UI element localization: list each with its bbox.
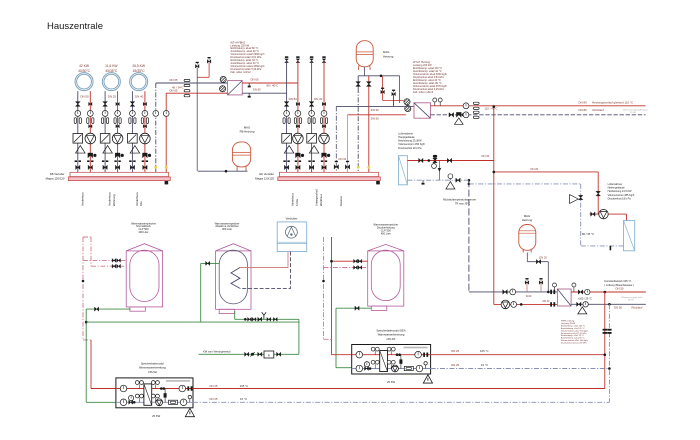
svg-text:Vorderhaus: Vorderhaus (108, 192, 112, 206)
valve motor supply (143, 102, 145, 105)
three-way valve (115, 153, 117, 158)
check valve KW (251, 353, 254, 356)
svg-text:Hauszentrale: Hauszentrale (47, 21, 103, 32)
svg-text:Druckverlust a2a1 2,19 kPa: Druckverlust a2a1 2,19 kPa (561, 342, 587, 345)
vent stub cold out (189, 399, 191, 403)
thermometer hot out (415, 351, 422, 358)
flex connector return (102, 118, 104, 124)
wire CPLSH hot out DN25 (193, 388, 605, 390)
flow meter (169, 400, 178, 404)
strainer Konstant return (578, 307, 587, 314)
svg-text:DN 50: DN 50 (616, 287, 624, 291)
module box CPLSH (116, 378, 193, 408)
thermometer hot in (356, 351, 363, 358)
cap HK1 supply (296, 56, 299, 58)
drain tick heater return (422, 180, 424, 183)
thermometer return (102, 111, 108, 117)
wire heater supply (407, 160, 493, 162)
drain tick supply (248, 83, 250, 86)
svg-text:Kita: Kita (139, 201, 143, 206)
wire compressor supply to coil (240, 252, 288, 268)
wire module cold row (116, 401, 193, 403)
flex on supply (184, 90, 190, 92)
manifold drain (165, 181, 169, 184)
wire circuit return (104, 91, 106, 172)
drain tick (610, 246, 612, 250)
wire supply drop x494 (493, 107, 495, 305)
svg-text:DN 32: DN 32 (339, 157, 347, 161)
wire red feed to HX2 top (382, 76, 384, 101)
svg-text:Warmwasserbereitung: Warmwasserbereitung (139, 366, 166, 370)
wire coil return to compressor (240, 252, 291, 289)
wire heater return (407, 179, 469, 181)
wire mixing supply row (494, 303, 558, 305)
wire circuit return (77, 91, 79, 172)
union supply (321, 160, 323, 162)
svg-text:11,6 KW: 11,6 KW (105, 64, 118, 68)
svg-text:DN 50: DN 50 (80, 94, 89, 98)
valve motor supply (322, 102, 324, 105)
mixing valve (73, 134, 83, 144)
wire CPLDX cold out DN25 (431, 368, 610, 370)
svg-text:400 Liter: 400 Liter (138, 230, 148, 234)
thermometer riser supply (163, 111, 169, 117)
wire tank2 upper green port (201, 262, 220, 264)
valve small supply (322, 125, 324, 128)
expansion vessel MAG FB (232, 142, 250, 167)
wire FB return riser (155, 83, 157, 172)
pump (112, 133, 123, 144)
svg-text:Speicherlademodul DEA: Speicherlademodul DEA (376, 328, 405, 332)
thermometer cold in (120, 399, 127, 406)
svg-text:26,5 KW: 26,5 KW (132, 64, 146, 68)
svg-text:450 Liter: 450 Liter (381, 231, 391, 235)
valve small supply (89, 125, 91, 128)
wire return drop x469 (468, 180, 470, 292)
strainer (309, 146, 319, 154)
valve KW group 2 (252, 317, 254, 321)
thermometer mid (129, 395, 134, 400)
valve motor supply (296, 102, 298, 105)
svg-text:45/35°C: 45/35°C (133, 69, 146, 73)
svg-text:CPLSH: CPLSH (148, 370, 157, 374)
svg-text:25 KW: 25 KW (387, 380, 396, 384)
valve tank2 upper (206, 261, 208, 265)
wire supply DN50 main (348, 114, 407, 116)
svg-text:Reserve: Reserve (339, 195, 343, 206)
svg-text:110 / 42°C: 110 / 42°C (485, 107, 498, 111)
valve cold (365, 367, 367, 371)
fill group stub 2 (540, 283, 542, 292)
valve KW 1 (245, 352, 247, 356)
wire circulation corner to module (83, 339, 91, 341)
sensor dot supply (165, 166, 168, 169)
valve Konstant supply (578, 290, 580, 294)
wire CPLSH hot in (91, 388, 116, 390)
wire WW riser pink x324 (323, 237, 325, 339)
thermometer under supply (433, 161, 435, 164)
junction hot (396, 353, 399, 356)
mixing valve (100, 134, 110, 144)
valve shutoff return (309, 102, 314, 104)
thermometer Konstant supply (585, 289, 590, 294)
svg-text:Verdichter: Verdichter (286, 217, 298, 221)
svg-text:KW vom Versorgernetz): KW vom Versorgernetz) (203, 349, 231, 353)
gauge pair top right (151, 381, 155, 385)
valve bottom supply (322, 165, 324, 169)
svg-text:DN 25: DN 25 (451, 363, 459, 367)
wire circuit return (311, 62, 313, 173)
valve small supply (143, 125, 145, 128)
svg-text:CPLDX: CPLDX (387, 337, 396, 341)
wire FB supply riser (165, 93, 167, 172)
pressure reducer (258, 317, 260, 321)
thermometer supply (142, 111, 148, 117)
strainer heater return (446, 182, 455, 189)
wire module hot row (352, 354, 431, 356)
fill stub on return main (393, 94, 395, 106)
wire HX1 port top (225, 82, 227, 84)
flex connector supply (141, 118, 143, 124)
svg-text:Heizungsvorlauf gleitend 110 °: Heizungsvorlauf gleitend 110 °C (592, 100, 633, 104)
valve main riser supply (366, 82, 371, 84)
wire Konstant return out (571, 303, 646, 305)
svg-text:FB-Heizung: FB-Heizung (240, 130, 255, 134)
wire green riser x201 (200, 263, 202, 322)
valve main riser return (356, 82, 361, 84)
junction cold (369, 367, 372, 370)
bypass with check valve (400, 355, 402, 369)
vent stub cold out (425, 365, 427, 369)
junction mixing supply (520, 303, 523, 306)
junction drop return (608, 303, 611, 306)
valve before pump (591, 212, 593, 216)
valves tank3 upper (354, 259, 356, 263)
junction hot (160, 387, 163, 390)
valve mixing return (503, 290, 505, 295)
labels below HK manifold (291, 192, 299, 206)
pump (140, 133, 151, 144)
svg-text:DN 65: DN 65 (170, 78, 178, 82)
wire tank3 lower port (324, 267, 368, 269)
thermometer supply (87, 111, 93, 117)
water meter Fi (264, 351, 274, 358)
wire secondary supply DN65 (166, 92, 227, 94)
valves tank1 upper (112, 259, 114, 263)
air heater Hauptgebaeude box (399, 156, 408, 185)
wire module hot row (116, 388, 193, 390)
valve motor supply (89, 102, 91, 105)
wire green horizontal y322 (86, 321, 299, 323)
wire return DN50 main (336, 105, 404, 107)
svg-text:DN 80: DN 80 (579, 100, 588, 104)
spare takeoff 2 (347, 115, 349, 173)
svg-text:80 / 35 °C: 80 / 35 °C (582, 232, 594, 236)
valve tank3 green (355, 306, 357, 310)
heat exchanger WT Lueftung (557, 289, 571, 306)
valve motor supply (116, 102, 118, 105)
wire district return DN80 (430, 114, 645, 116)
flex on return (184, 79, 190, 81)
svg-text:Heizung: Heizung (383, 54, 394, 58)
svg-text:DN 25: DN 25 (108, 94, 117, 98)
valve small supply (116, 125, 118, 128)
thermometer cold out (416, 365, 423, 372)
svg-text:DN 65: DN 65 (251, 77, 259, 81)
svg-text:15 °C: 15 °C (240, 397, 247, 401)
vent riser to MAG-FB (196, 67, 198, 83)
thermometer supply (295, 111, 301, 117)
valves tank1 lower (112, 264, 114, 268)
bypass with check valve (164, 389, 166, 403)
wire circuit return (131, 91, 133, 172)
bypass check (438, 161, 440, 181)
wire MAG2 connection (526, 253, 528, 262)
wire green riser x298 (298, 319, 300, 354)
manifold HK Verteiler bar bottom (278, 177, 381, 181)
valve bottom return (284, 165, 286, 169)
svg-text:Untergeschoß: Untergeschoß (315, 189, 319, 206)
thermometer hot out (179, 385, 186, 392)
thermometer mixing return (510, 289, 516, 295)
valve district return (449, 113, 451, 118)
svg-text:43 kW: 43 kW (628, 300, 634, 302)
strainer (284, 146, 294, 154)
svg-text:+105 / 29 °C: +105 / 29 °C (578, 297, 592, 300)
svg-text:Druckverlust 20 k Pa: Druckverlust 20 k Pa (398, 147, 422, 150)
valve KW group 4 (273, 317, 275, 321)
svg-text:Rücklauftemperaturbegrenzer: Rücklauftemperaturbegrenzer (443, 199, 476, 202)
compressor Verdichter box (277, 222, 307, 252)
svg-text:DN 40: DN 40 (135, 94, 144, 98)
valve shutoff return (130, 102, 135, 104)
ball valve HX2 top (404, 99, 410, 105)
wire CPLDX hot out DN25 (431, 354, 605, 356)
pump module (392, 365, 399, 372)
wire tank2 bottom drop (234, 311, 236, 319)
svg-text:Volumenstrom 385 Kg/h: Volumenstrom 385 Kg/h (608, 194, 635, 197)
gauge pair mid left (135, 394, 139, 398)
pump (293, 133, 304, 144)
junction green (85, 321, 88, 324)
svg-text:Heizung: Heizung (522, 218, 533, 222)
union supply (142, 160, 144, 162)
three-way valve district return (456, 112, 458, 117)
wire drop blue x609 (608, 304, 610, 402)
junction supply (428, 159, 431, 162)
union return (75, 160, 77, 162)
valve bottom return (130, 165, 132, 169)
label Vorderhaus Werkstatt (81, 192, 85, 206)
pump (85, 133, 96, 144)
plate heat exchanger (144, 384, 152, 405)
wire HX1 port bottom (225, 92, 227, 94)
wire circuit return (286, 62, 288, 173)
tank 1 Warmwasserspeicher Normaldruck (126, 244, 162, 251)
valve bottom return (309, 165, 311, 169)
svg-text:Magra 120/125: Magra 120/125 (255, 176, 274, 180)
svg-text:Vorderhaus: Vorderhaus (81, 192, 85, 206)
svg-text:105 °C: 105 °C (240, 384, 249, 388)
strainer Neben return (570, 195, 579, 204)
svg-text:DN 50: DN 50 (371, 116, 379, 120)
wire primary return 40C (242, 92, 286, 94)
wire tank3 green drop (335, 308, 337, 368)
wire MAG connection line (363, 67, 365, 76)
svg-text:Druckverlust 18 k Pa: Druckverlust 18 k Pa (608, 197, 632, 200)
svg-text:Rücklauf: Rücklauf (632, 305, 643, 309)
valve shutoff return (75, 102, 80, 104)
junction cold (133, 401, 136, 404)
union on red drop (603, 329, 607, 331)
union hot out (423, 353, 425, 357)
gauges on supply (434, 100, 436, 106)
junction WW pink (322, 280, 325, 283)
wire Neben return riser (580, 184, 582, 246)
consumer circle FB1 (75, 73, 93, 91)
flex connector supply (114, 118, 116, 124)
gauge pair mid right (151, 394, 155, 398)
junction MAG (380, 75, 383, 78)
svg-text:80 / 40°C: 80 / 40°C (267, 83, 279, 87)
three-way valve (143, 153, 145, 158)
svg-text:Konstantbetrieb 105 °C: Konstantbetrieb 105 °C (604, 279, 631, 283)
svg-text:300 Liter: 300 Liter (222, 227, 232, 231)
thermometer hot in (120, 385, 127, 392)
svg-text:15 °C: 15 °C (481, 363, 488, 367)
svg-text:Lufterwärmer: Lufterwärmer (398, 132, 413, 135)
pump Nebengebaeude (599, 209, 608, 218)
wire into heater box (626, 214, 628, 221)
wire district supply DN80 (430, 105, 645, 107)
wire tank1 bottom green (86, 308, 130, 310)
pump module (156, 399, 163, 406)
union supply (295, 160, 297, 162)
valve KW 2 (258, 352, 260, 356)
wire circuit supply (323, 62, 325, 173)
svg-text:DN 50: DN 50 (614, 305, 622, 309)
union return (129, 160, 131, 162)
expansion vessel MAG 2 (519, 225, 536, 251)
svg-text:45/35°C: 45/35°C (105, 69, 118, 73)
valve tank1 green (95, 307, 97, 311)
junction drop supply (604, 291, 607, 294)
sensor dot return (154, 166, 157, 169)
union supply (114, 160, 116, 162)
svg-text:Heizleistung 25,3KW: Heizleistung 25,3KW (398, 140, 422, 143)
svg-text:105 °C: 105 °C (480, 349, 489, 353)
svg-text:4.Kita: 4.Kita (295, 199, 299, 206)
valve bottom supply (296, 165, 298, 169)
flex return (473, 111, 479, 113)
svg-text:DN 20: DN 20 (539, 256, 547, 260)
wire CPLSH cold out DN25 (193, 401, 609, 403)
junction circulation (82, 280, 85, 283)
svg-text:DN 50: DN 50 (371, 108, 379, 112)
coil in tank 2 (231, 268, 240, 289)
consumer circle FB3 (130, 73, 148, 91)
thermometer return (284, 111, 290, 117)
wire MAG drop to HX2 (399, 76, 401, 103)
wire drop red x605 (604, 292, 606, 389)
strainer (76, 146, 86, 154)
thermometer return (463, 112, 469, 118)
flow meter (404, 366, 413, 370)
valve bottom supply (88, 165, 90, 169)
valve KW group 1 (248, 317, 250, 321)
consumer circle FB2 (102, 73, 120, 91)
wire DN20 supply to Nebengebaeude (494, 171, 598, 173)
thermometer supply (115, 111, 121, 117)
svg-text:Rücklauf: Rücklauf (593, 108, 604, 112)
pump mixing (501, 300, 510, 309)
wire circuit supply (89, 91, 91, 172)
svg-text:DN 65: DN 65 (170, 88, 178, 92)
wire tank3 bottom green (336, 307, 371, 309)
strainer district return (455, 118, 464, 124)
union return (308, 160, 310, 162)
ball valve HX1 supply (220, 86, 226, 92)
manifold FB Verteiler bar bottom (68, 177, 170, 181)
manifold HK drain (376, 181, 380, 184)
wire MAG2 drop (547, 262, 549, 292)
mixing valve (307, 134, 317, 144)
thermometer Konstant return (583, 302, 588, 307)
svg-text:Hauptgebäude: Hauptgebäude (398, 136, 415, 139)
flex supply (473, 102, 479, 104)
thermometer supply (321, 111, 327, 117)
gauge HX3 left (554, 285, 556, 292)
valve bottom return (76, 165, 78, 169)
svg-text:Vorderhaus: Vorderhaus (135, 192, 139, 206)
wire circulation top link (83, 236, 91, 238)
svg-text:DN 20: DN 20 (531, 167, 539, 171)
flex connector return (74, 118, 76, 124)
wire supply drop to CPLSH (90, 340, 92, 389)
heat exchanger WT Heizung (414, 103, 430, 118)
svg-text:DN 40: DN 40 (543, 300, 550, 303)
cap HK2 supply (322, 56, 325, 58)
drain tick return (248, 93, 250, 96)
svg-text:Wohnung: Wohnung (112, 194, 116, 206)
air heater Nebengebaeude box (624, 221, 635, 251)
safety valve on feed (381, 90, 383, 94)
heat exchanger WT FB (228, 81, 243, 95)
svg-text:42 KW: 42 KW (79, 64, 90, 68)
valve cold (129, 400, 131, 404)
wire HX2 port mid (404, 105, 414, 107)
wire pink join red (324, 338, 332, 340)
svg-text:DN 65: DN 65 (253, 87, 261, 91)
wire primary supply 80C (242, 82, 298, 84)
valve MAG2 (536, 260, 538, 264)
svg-text:FB Verteiler: FB Verteiler (50, 172, 65, 176)
cap HK1 return (285, 56, 288, 58)
wire circuit supply (144, 91, 146, 172)
ball valve HX2 mid (405, 106, 411, 112)
module box CPLDX (352, 345, 431, 375)
svg-text:Hinterhaus: Hinterhaus (291, 192, 295, 206)
plate heat exchanger (380, 351, 388, 372)
flex connector supply (87, 118, 89, 124)
flex connector supply (294, 118, 296, 124)
wire Neben supply drop (597, 172, 599, 214)
fill group stub 1 (526, 283, 528, 292)
wire circuit supply (297, 62, 299, 173)
module type note (166, 380, 190, 382)
wire red to CPLDX (332, 354, 352, 356)
three-way valve (296, 153, 298, 158)
